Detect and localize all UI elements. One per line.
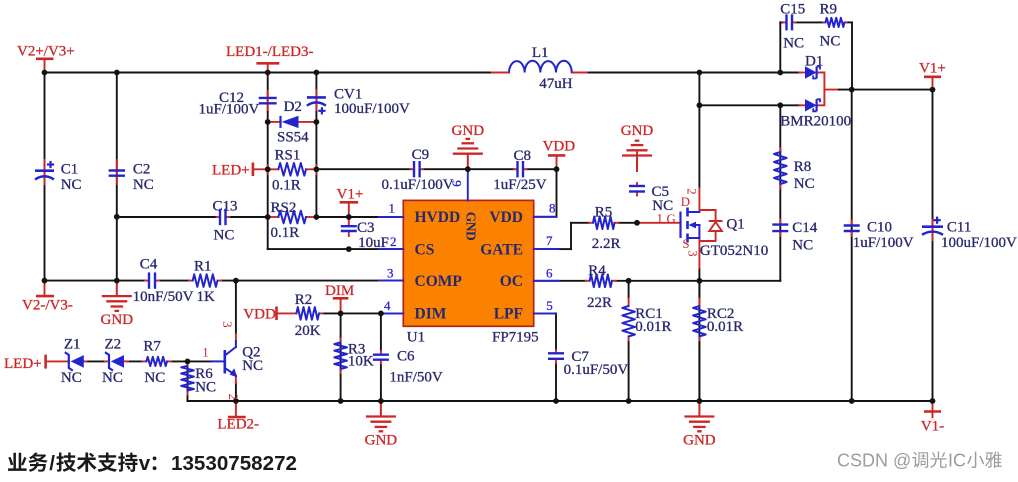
svg-text:3: 3	[686, 250, 700, 256]
svg-text:CSDN @: CSDN @	[837, 451, 911, 471]
svg-text:C4: C4	[140, 257, 158, 273]
svg-text:U1: U1	[407, 330, 425, 346]
svg-text:10K: 10K	[348, 354, 374, 370]
svg-text:9: 9	[449, 180, 464, 187]
svg-text:/: /	[49, 452, 55, 475]
svg-text:3: 3	[220, 321, 234, 327]
svg-text:VDD: VDD	[489, 209, 523, 226]
svg-text:LPF: LPF	[494, 306, 523, 323]
svg-text:V1+: V1+	[337, 187, 364, 203]
svg-text:GATE: GATE	[480, 241, 523, 258]
svg-text:V2+/V3+: V2+/V3+	[17, 44, 75, 60]
svg-text:1nF/50V: 1nF/50V	[389, 370, 443, 386]
svg-text:NC: NC	[61, 370, 82, 386]
svg-text:1uF/100V: 1uF/100V	[853, 235, 914, 251]
svg-text:2: 2	[390, 234, 397, 249]
svg-text:D1: D1	[805, 54, 823, 70]
svg-text:NC: NC	[133, 177, 154, 193]
svg-text:LED+: LED+	[4, 356, 42, 372]
svg-text:8: 8	[549, 201, 556, 216]
svg-text:NC: NC	[214, 228, 235, 244]
svg-text:1K: 1K	[197, 289, 216, 305]
svg-text:R8: R8	[794, 159, 812, 175]
svg-text:0.1uF/50V: 0.1uF/50V	[564, 362, 629, 378]
svg-text:L1: L1	[532, 45, 549, 61]
svg-text:47uH: 47uH	[539, 76, 573, 92]
svg-text:13530758272: 13530758272	[171, 452, 297, 475]
svg-text:R4: R4	[588, 263, 606, 279]
svg-text:NC: NC	[61, 177, 82, 193]
svg-text:22R: 22R	[587, 295, 612, 311]
svg-text:COMP: COMP	[415, 273, 463, 290]
svg-text:VDD: VDD	[243, 307, 276, 323]
svg-text:6: 6	[546, 265, 553, 280]
svg-text:GND: GND	[683, 433, 716, 449]
svg-text:LED2-: LED2-	[217, 416, 259, 432]
svg-text:C2: C2	[133, 162, 151, 178]
svg-text:1: 1	[202, 346, 208, 360]
svg-text:1uF/100V: 1uF/100V	[199, 102, 260, 118]
svg-text:C1: C1	[61, 162, 79, 178]
svg-text:R5: R5	[595, 205, 613, 221]
svg-text:NC: NC	[783, 36, 804, 52]
svg-text:GND: GND	[621, 123, 654, 139]
svg-text:D2: D2	[284, 99, 302, 115]
svg-text:NC: NC	[794, 176, 815, 192]
svg-text:V2-/V3-: V2-/V3-	[22, 298, 73, 314]
svg-text:1: 1	[657, 212, 663, 226]
svg-text:R2: R2	[295, 292, 313, 308]
svg-text:0.1R: 0.1R	[271, 225, 300, 241]
svg-text:Z2: Z2	[105, 337, 122, 353]
svg-text:NC: NC	[195, 380, 216, 396]
svg-text:SS54: SS54	[277, 130, 309, 146]
svg-text:C11: C11	[947, 220, 971, 236]
svg-text:0.1R: 0.1R	[272, 178, 301, 194]
svg-text:RS2: RS2	[271, 200, 297, 216]
svg-text:S: S	[682, 237, 689, 251]
svg-text:20K: 20K	[295, 323, 321, 339]
svg-text:100uF/100V: 100uF/100V	[941, 235, 1017, 251]
svg-text:7: 7	[546, 233, 553, 248]
svg-text:HVDD: HVDD	[415, 209, 461, 226]
svg-text:C9: C9	[412, 147, 430, 163]
svg-text:DIM: DIM	[325, 283, 354, 299]
svg-text:1uF/25V: 1uF/25V	[493, 177, 547, 193]
svg-text:5: 5	[546, 298, 553, 313]
svg-text:NC: NC	[820, 34, 841, 50]
svg-text:GND: GND	[464, 212, 479, 241]
svg-text:D: D	[681, 195, 690, 209]
svg-text:C6: C6	[397, 349, 415, 365]
svg-text:R9: R9	[820, 2, 838, 18]
svg-text:3: 3	[387, 265, 394, 280]
svg-text:NC: NC	[144, 370, 165, 386]
svg-text:0.1uF/100V: 0.1uF/100V	[382, 177, 454, 193]
svg-text:10nF/50V: 10nF/50V	[133, 289, 194, 305]
svg-text:2: 2	[685, 188, 699, 194]
svg-text:2.2R: 2.2R	[592, 236, 621, 252]
svg-text:C10: C10	[867, 220, 892, 236]
svg-text:C14: C14	[792, 220, 818, 236]
svg-text:GND: GND	[365, 433, 398, 449]
svg-text:V1-: V1-	[921, 419, 944, 435]
svg-text:Q1: Q1	[726, 217, 744, 233]
svg-text:LED+: LED+	[212, 163, 250, 179]
svg-text:VDD: VDD	[543, 139, 576, 155]
svg-text:LED1-/LED3-: LED1-/LED3-	[226, 44, 313, 60]
svg-text:RS1: RS1	[275, 148, 301, 164]
svg-text:G: G	[667, 212, 676, 226]
svg-text:1: 1	[389, 201, 396, 216]
svg-text:NC: NC	[242, 358, 263, 374]
svg-text:0.01R: 0.01R	[635, 319, 671, 335]
svg-text:GND: GND	[101, 312, 134, 328]
svg-text:NC: NC	[102, 370, 123, 386]
svg-text:C13: C13	[213, 199, 238, 215]
svg-text:GND: GND	[452, 123, 485, 139]
svg-text:FP7195: FP7195	[492, 330, 539, 346]
svg-text:NC: NC	[792, 238, 813, 254]
svg-text:C8: C8	[514, 148, 532, 164]
svg-text:C3: C3	[357, 220, 375, 236]
svg-text:DIM: DIM	[415, 306, 447, 323]
svg-text:2: 2	[226, 393, 240, 399]
svg-text:CS: CS	[415, 241, 435, 258]
svg-text:4: 4	[384, 298, 391, 313]
svg-text:V1+: V1+	[919, 61, 946, 77]
svg-text:R1: R1	[194, 259, 212, 275]
svg-text:IC: IC	[948, 451, 966, 471]
svg-text:OC: OC	[500, 273, 523, 290]
svg-text:v: v	[139, 452, 151, 475]
svg-text:C15: C15	[780, 2, 805, 18]
svg-text:0.01R: 0.01R	[707, 319, 743, 335]
svg-text:100uF/100V: 100uF/100V	[334, 101, 410, 117]
svg-text:Z1: Z1	[64, 337, 81, 353]
svg-text:R7: R7	[143, 339, 161, 355]
svg-text:10uF: 10uF	[358, 235, 389, 251]
svg-text:BMR20100: BMR20100	[780, 114, 851, 130]
svg-text:GT052N10: GT052N10	[700, 243, 768, 259]
